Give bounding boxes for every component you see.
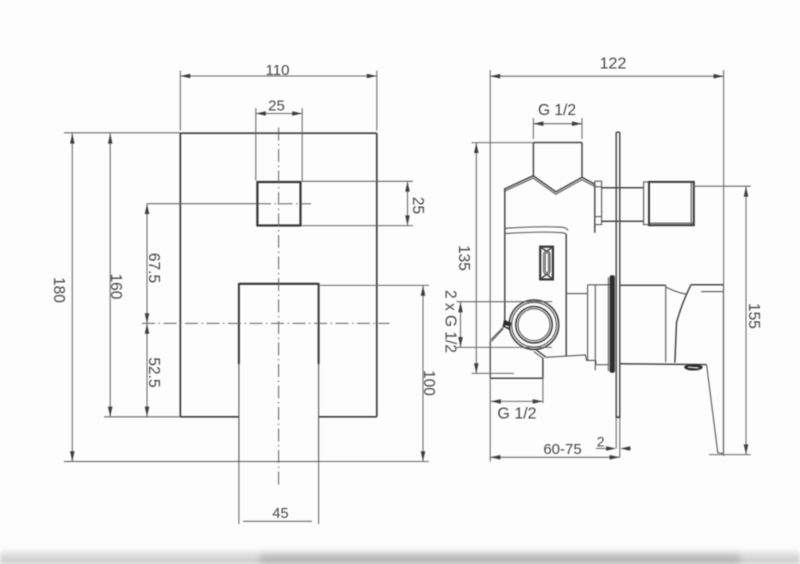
- cartridge window: [540, 247, 553, 280]
- dim 155 right: [745, 186, 747, 454]
- dim 60-75 depth: [490, 456, 619, 458]
- diverter shaft through plate: [602, 187, 644, 189]
- svg-text:25: 25: [409, 197, 426, 214]
- knob centerline horizontal: [147, 203, 257, 205]
- stub under circle: [536, 350, 545, 357]
- wall plate edge-on (2mm): [615, 132, 617, 417]
- svg-text:60-75: 60-75: [543, 441, 581, 458]
- plate top extension line: [64, 132, 180, 134]
- inlet pipe top (side view): [532, 143, 534, 177]
- diverter knob side view: [649, 182, 694, 225]
- svg-text:2: 2: [597, 434, 605, 450]
- svg-text:122: 122: [600, 56, 627, 73]
- valve body left edge: [504, 189, 506, 321]
- body shoulders with V-notch (double line): [504, 176, 595, 192]
- lever handle (front view, 45 wide): [239, 283, 319, 285]
- dim 52.5: [146, 323, 148, 416]
- svg-text:G 1/2: G 1/2: [497, 405, 536, 422]
- shaft collar before knob: [644, 182, 649, 225]
- valve body right edge upper: [594, 185, 596, 233]
- lever cap shoulder arc: [666, 287, 687, 294]
- dim 110 top: [180, 75, 376, 77]
- body bottom contour: [546, 355, 596, 360]
- svg-text:180: 180: [50, 277, 67, 303]
- dim G 1/2 bottom port: [491, 400, 543, 402]
- escutcheon collar dark: [610, 275, 615, 373]
- dim 25 top: [256, 113, 302, 115]
- lower body right edge: [565, 234, 567, 356]
- plate bottom extension line left: [104, 416, 180, 418]
- wall plate (front view 110x155): [180, 132, 376, 134]
- svg-text:G 1/2: G 1/2: [538, 102, 576, 119]
- front port circles 2 x G 1/2: [509, 300, 558, 349]
- svg-text:160: 160: [107, 274, 124, 300]
- retaining clip tab dark: [503, 320, 512, 330]
- svg-text:67.5: 67.5: [145, 253, 162, 283]
- svg-text:25: 25: [268, 98, 285, 115]
- ext 122 right long: [723, 70, 725, 456]
- dim 160: [109, 133, 111, 417]
- side outlet ribbed collar: [595, 181, 602, 224]
- dim 100 right: [320, 284, 429, 286]
- clip leader double diagonal: [491, 326, 504, 339]
- set screw ellipse: [684, 364, 703, 370]
- dim 67.5: [146, 204, 148, 324]
- cartridge sleeve steps: [566, 293, 587, 295]
- svg-text:45: 45: [272, 506, 288, 522]
- diverter knob square (front view 25x25): [257, 182, 300, 226]
- svg-text:135: 135: [455, 245, 472, 271]
- handle bottom edge + extension to 180 dim: [64, 461, 319, 463]
- dim 135 left: [475, 143, 477, 374]
- body joint band curves: [505, 227, 568, 231]
- ext 122 left long: [489, 70, 491, 462]
- svg-text:2 x G 1/2: 2 x G 1/2: [442, 290, 459, 353]
- svg-text:155: 155: [745, 303, 762, 329]
- svg-text:100: 100: [420, 370, 437, 396]
- lever tail: [722, 285, 724, 454]
- dim 180 left: [71, 133, 73, 461]
- lever top edge: [691, 284, 724, 286]
- svg-text:52.5: 52.5: [145, 357, 162, 387]
- lever neck cylinder: [620, 284, 666, 286]
- scanner shadow bottom: [0, 548, 800, 564]
- lever top inner contour: [701, 291, 723, 293]
- dim 122 top: [490, 75, 723, 77]
- dim 45 bottom: [238, 462, 240, 524]
- vertical centerline: [278, 128, 280, 488]
- svg-text:110: 110: [266, 62, 290, 79]
- bottom port outline: [489, 341, 491, 378]
- lever cap front face: [675, 285, 691, 363]
- dim 25 right of knob: [301, 180, 414, 182]
- horizontal centerline: [142, 322, 390, 324]
